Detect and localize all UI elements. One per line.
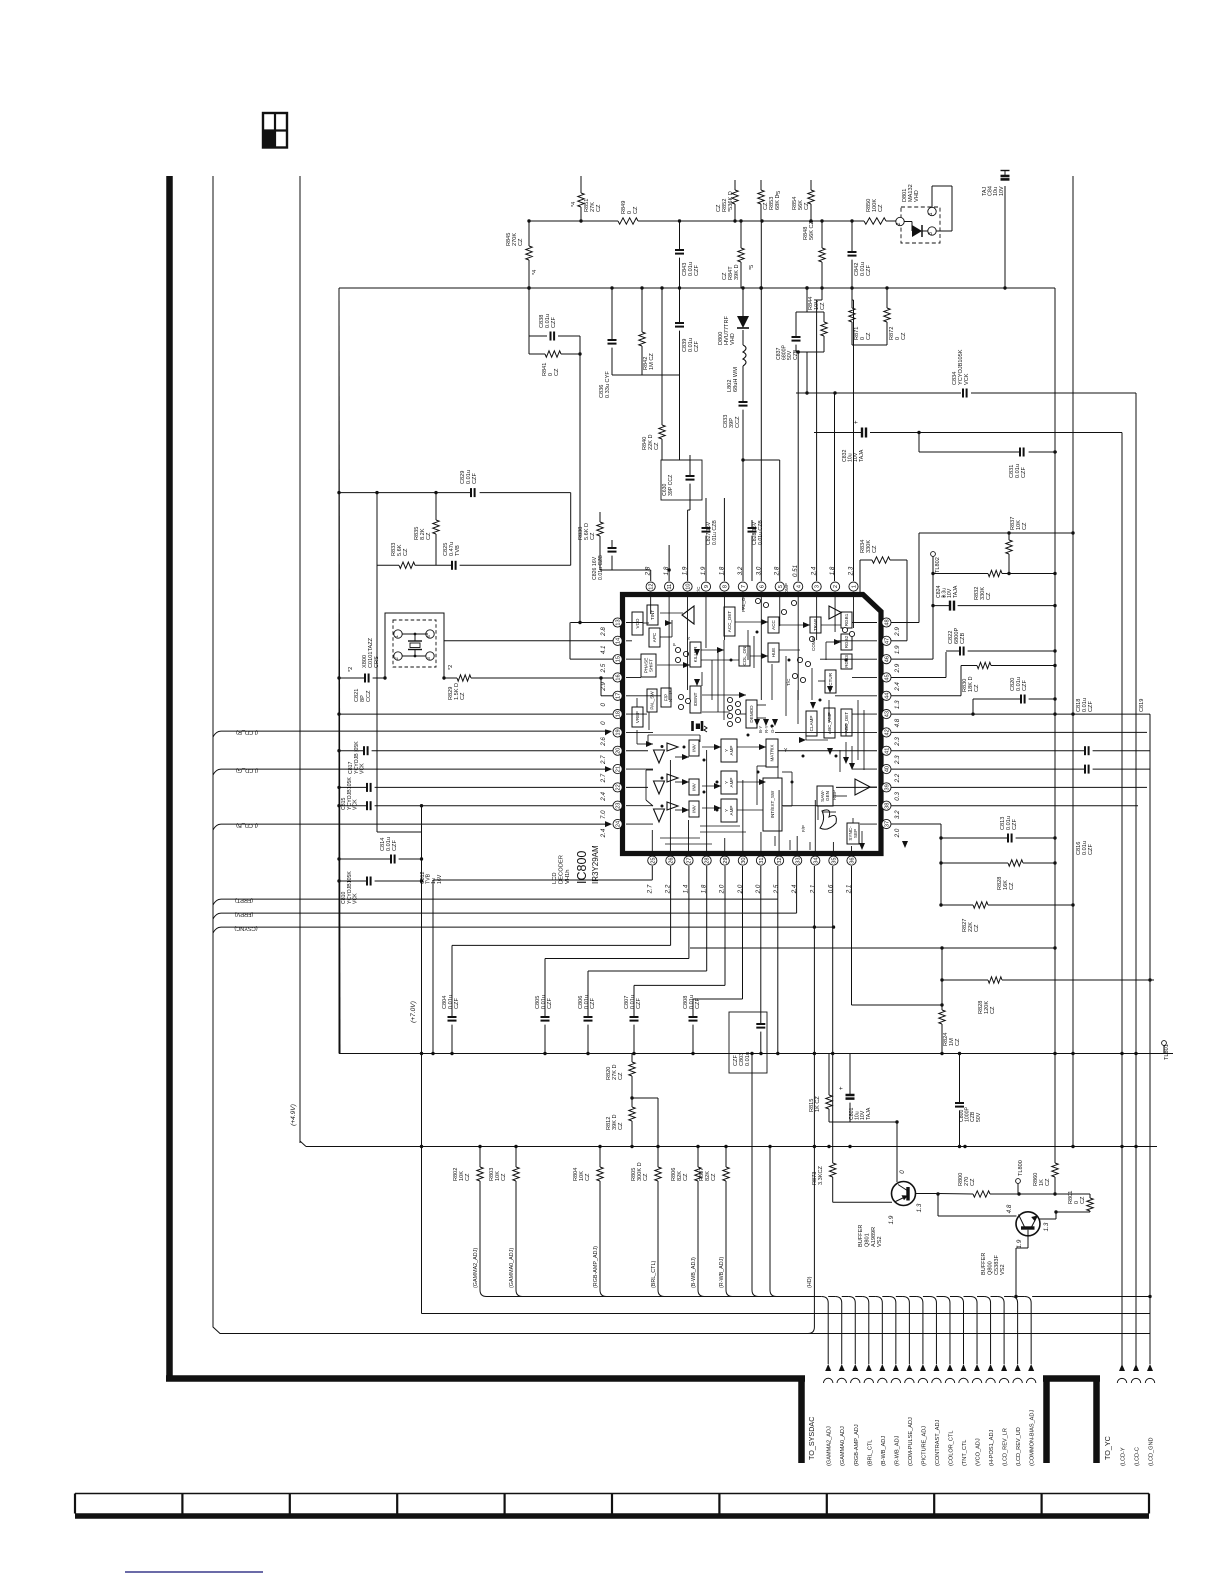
svg-text:TL802: TL802 bbox=[935, 557, 941, 573]
svg-text:(GAMMA2_ADJ: (GAMMA2_ADJ bbox=[827, 1426, 833, 1466]
net label (RGB-AMP_ADJ) bbox=[593, 1246, 599, 1288]
capacitor C830 box bbox=[661, 455, 702, 581]
svg-text:(HD): (HD) bbox=[807, 1276, 813, 1288]
resistor R829 bbox=[444, 665, 613, 700]
diode D801 bbox=[896, 184, 952, 243]
svg-text:16: 16 bbox=[616, 674, 622, 680]
wire pin41 stub bbox=[890, 750, 892, 752]
wire pin14 stub bbox=[444, 640, 613, 642]
svg-text:CZF: CZF bbox=[392, 840, 398, 851]
connector terminals TO_SYSDAC bbox=[824, 1303, 1036, 1383]
wire y948 link bbox=[690, 946, 1057, 949]
wire pin5 column bbox=[741, 458, 779, 581]
IC800 internal block KILLER bbox=[690, 642, 701, 667]
svg-text:(LCD_REV_UD: (LCD_REV_UD bbox=[1016, 1427, 1022, 1466]
svg-text:1.3: 1.3 bbox=[916, 1203, 923, 1212]
capacitor C819 bbox=[891, 699, 1150, 1364]
IC800 internal annotations bbox=[668, 583, 837, 832]
IC800 pin 15 bbox=[600, 655, 622, 674]
capacitor C814 bbox=[337, 837, 423, 864]
wire LCD_B input bbox=[213, 821, 612, 830]
svg-text:2.1: 2.1 bbox=[809, 885, 816, 895]
svg-text:COMP: COMP bbox=[811, 637, 816, 651]
svg-text:CZ: CZ bbox=[585, 1173, 591, 1181]
IC800 internal block COL ON bbox=[739, 646, 750, 666]
IC800 internal block APC bbox=[649, 628, 660, 647]
svg-text:CZ: CZ bbox=[974, 924, 980, 932]
svg-text:CZ: CZ bbox=[955, 1038, 961, 1046]
resistor R847 bbox=[722, 219, 755, 288]
capacitor C828 bbox=[748, 520, 765, 581]
resistor R805 bbox=[631, 1145, 665, 1297]
svg-text:2.8: 2.8 bbox=[600, 627, 607, 637]
svg-text:CZF: CZF bbox=[636, 998, 642, 1009]
wire right column C bbox=[1054, 288, 1056, 1054]
wire pin37 stub bbox=[0, 0, 1, 1]
svg-text:2.3: 2.3 bbox=[894, 737, 901, 747]
wire pin2 column bbox=[834, 393, 836, 581]
IC800 pin 18 bbox=[600, 710, 622, 725]
IC800 internal block INV 1 bbox=[689, 740, 699, 756]
svg-text:T/C: T/C bbox=[696, 586, 701, 594]
svg-text:(RGB-AMP_ADJ: (RGB-AMP_ADJ bbox=[854, 1424, 860, 1466]
svg-text:(BRL_CTL): (BRL_CTL) bbox=[651, 1261, 657, 1288]
resistor R802 bbox=[453, 1145, 487, 1297]
resistor R841 bbox=[527, 286, 581, 622]
svg-text:CZF: CZF bbox=[590, 998, 596, 1009]
resistor R832 bbox=[931, 570, 1056, 600]
svg-text:(VCO_ADJ: (VCO_ADJ bbox=[976, 1438, 982, 1466]
svg-text:CZ: CZ bbox=[554, 368, 560, 376]
page border thick left bar bbox=[166, 176, 173, 1382]
IC800 internal buffer pair 1 bbox=[654, 743, 679, 763]
wire pin4 column bbox=[797, 350, 800, 581]
svg-text:(LCD_GND: (LCD_GND bbox=[1149, 1437, 1155, 1466]
wire y492 bbox=[337, 491, 570, 565]
svg-text:2.6: 2.6 bbox=[600, 737, 607, 747]
net label (GAMMA0_ADJ) bbox=[509, 1248, 515, 1288]
svg-text:19: 19 bbox=[616, 729, 622, 735]
IC800 pin 41 bbox=[882, 746, 901, 765]
wire pin38 stub bbox=[891, 805, 1138, 807]
svg-text:INT/EXT_SW: INT/EXT_SW bbox=[770, 790, 775, 818]
IC800 internal block HUE bbox=[768, 643, 779, 662]
svg-text:33: 33 bbox=[795, 857, 801, 863]
svg-text:2.7: 2.7 bbox=[600, 755, 607, 765]
svg-text:10V: 10V bbox=[999, 186, 1005, 196]
svg-text:0: 0 bbox=[899, 1170, 906, 1174]
unmarked drops bbox=[750, 1052, 776, 1297]
svg-text:LCD: LCD bbox=[552, 872, 558, 884]
capacitor C813 bbox=[891, 816, 1057, 905]
IC800 pin 43 bbox=[882, 710, 901, 728]
IC800 internal block RGB2 bbox=[841, 634, 852, 650]
wire buffer rail bbox=[936, 1192, 1090, 1195]
svg-text:(LCD_G): (LCD_G) bbox=[236, 767, 259, 773]
svg-text:COL_ON: COL_ON bbox=[742, 647, 747, 666]
svg-text:CRS: CRS bbox=[374, 656, 380, 668]
svg-text:Q800: Q800 bbox=[987, 1261, 993, 1275]
resistor R800 bbox=[958, 1173, 990, 1198]
IC800 internal block ABC AMP bbox=[824, 708, 835, 738]
svg-text:(GAMMA0_ADJ): (GAMMA0_ADJ) bbox=[509, 1248, 515, 1288]
svg-text:CZF: CZF bbox=[1022, 680, 1028, 691]
registration mark bbox=[263, 113, 287, 148]
svg-text:VCO: VCO bbox=[635, 618, 640, 628]
IC800 pin 6 bbox=[755, 566, 766, 591]
svg-text:CZ: CZ bbox=[970, 1178, 976, 1186]
wire top rail bbox=[528, 219, 896, 222]
capacitor C816 on pin23 bbox=[337, 801, 613, 810]
svg-text:VCK: VCK bbox=[964, 373, 970, 385]
capacitor C825 bbox=[443, 542, 461, 570]
wire q800 collector link bbox=[981, 1166, 983, 1168]
svg-text:3.3KCZ: 3.3KCZ bbox=[818, 1165, 824, 1185]
IC800 pin 19 bbox=[600, 728, 622, 747]
svg-text:2.9: 2.9 bbox=[894, 663, 901, 673]
IC800 pin 8 bbox=[718, 566, 729, 591]
svg-text:*2: *2 bbox=[448, 665, 454, 670]
svg-text:CZ: CZ bbox=[872, 545, 878, 553]
svg-text:(FRPT): (FRPT) bbox=[235, 897, 253, 903]
IC800 pin 36 bbox=[846, 856, 857, 894]
svg-text:A1989R: A1989R bbox=[871, 1227, 877, 1247]
svg-text:CZF: CZF bbox=[694, 265, 700, 276]
svg-text:CCZ: CCZ bbox=[366, 690, 372, 702]
svg-text:TAJA: TAJA bbox=[859, 449, 865, 462]
wire pin1 column bbox=[852, 288, 854, 581]
test point TL802 bbox=[931, 552, 941, 606]
svg-text:(BRL_CTL: (BRL_CTL bbox=[867, 1440, 873, 1466]
svg-text:2.0: 2.0 bbox=[894, 828, 901, 838]
wire pin8 column bbox=[723, 498, 725, 581]
wire right column B bbox=[1121, 433, 1123, 1369]
svg-text:CZ: CZ bbox=[974, 684, 980, 692]
capacitor C821 bbox=[337, 667, 385, 702]
wire comp feed bbox=[814, 432, 1122, 434]
svg-text:(COLOR_CTL: (COLOR_CTL bbox=[948, 1431, 954, 1466]
wire pin48 stub bbox=[891, 531, 1075, 622]
svg-text:(+7.0V): (+7.0V) bbox=[410, 1001, 417, 1023]
wire FRPV bbox=[213, 866, 797, 919]
svg-text:CZ: CZ bbox=[618, 1072, 624, 1080]
wire pin43 long bbox=[891, 712, 1150, 715]
IC800 pin 40 bbox=[882, 764, 901, 783]
resistor R807 bbox=[699, 1145, 733, 1297]
wire rail left drop bbox=[338, 288, 340, 1054]
svg-text:1: 1 bbox=[394, 635, 399, 638]
svg-text:1.9: 1.9 bbox=[888, 1215, 895, 1224]
svg-text:BUFFER: BUFFER bbox=[858, 1225, 864, 1247]
wire cascade p26 bbox=[452, 866, 671, 945]
svg-text:42: 42 bbox=[885, 729, 891, 735]
resistor R848 bbox=[803, 220, 825, 288]
capacitor C829 bbox=[460, 470, 478, 497]
wire right column A bbox=[1135, 393, 1137, 1368]
svg-text:VHD: VHD bbox=[730, 333, 736, 345]
svg-text:*4: *4 bbox=[532, 270, 538, 275]
capacitor C827 bbox=[702, 498, 719, 581]
svg-text:47: 47 bbox=[885, 638, 891, 644]
IC800 pin 14 bbox=[600, 636, 622, 654]
svg-text:*536K D: *536K D bbox=[728, 191, 734, 212]
svg-text:INV: INV bbox=[692, 804, 697, 813]
svg-text:16V: 16V bbox=[437, 874, 443, 884]
svg-text:T/C: T/C bbox=[786, 678, 791, 686]
svg-text:(+4.9V): (+4.9V) bbox=[290, 1104, 297, 1126]
capacitor C800 bbox=[955, 1054, 982, 1147]
connector label TO_SYSDAC bbox=[807, 1417, 816, 1460]
wire pin17 stub bbox=[599, 676, 613, 696]
resistor R815 bbox=[809, 1054, 832, 1123]
svg-text:26: 26 bbox=[669, 857, 675, 863]
resistor R834 bbox=[860, 540, 907, 641]
svg-text:CZ: CZ bbox=[986, 592, 992, 600]
svg-text:(LCD_B): (LCD_B) bbox=[236, 822, 258, 828]
svg-text:AMP: AMP bbox=[729, 806, 734, 816]
IC800 internal block MATRIX bbox=[766, 739, 778, 767]
connector terminals TO_YC bbox=[1117, 1054, 1154, 1384]
svg-text:CZ: CZ bbox=[1080, 1196, 1086, 1204]
svg-text:VS2: VS2 bbox=[1000, 1264, 1006, 1275]
svg-text:VCK: VCK bbox=[353, 799, 359, 810]
svg-text:2.2: 2.2 bbox=[894, 773, 901, 783]
capacitor C84 bbox=[982, 171, 1010, 289]
IC800 internal inverter triangle bbox=[682, 606, 694, 624]
resistor R824 bbox=[939, 946, 961, 1053]
svg-text:(B-WB_ADJ): (B-WB_ADJ) bbox=[691, 1257, 697, 1288]
wire main rail bbox=[339, 286, 1055, 289]
svg-text:TVB: TVB bbox=[455, 545, 461, 556]
svg-text:PAL_SW: PAL_SW bbox=[650, 691, 655, 710]
svg-text:CZF: CZF bbox=[472, 473, 478, 484]
IC800 pin 13 bbox=[600, 618, 622, 637]
svg-text:18: 18 bbox=[616, 711, 622, 717]
svg-text:2.4: 2.4 bbox=[600, 792, 607, 802]
svg-text:RGB2: RGB2 bbox=[844, 635, 849, 648]
svg-text:12: 12 bbox=[649, 583, 655, 589]
svg-text:VS2: VS2 bbox=[877, 1236, 883, 1247]
IC800 internal block gamma amp 1 bbox=[721, 739, 737, 762]
IC800 internal block F-P bbox=[661, 688, 671, 707]
wire LCD_G input bbox=[213, 766, 612, 775]
svg-text:ABC_AMP: ABC_AMP bbox=[827, 712, 832, 734]
net label (R-WB_ADJ) bbox=[719, 1257, 725, 1288]
capacitor C832 bbox=[842, 420, 866, 462]
svg-text:9: 9 bbox=[704, 585, 710, 588]
svg-text:VHD: VHD bbox=[914, 190, 920, 202]
svg-text:0: 0 bbox=[600, 721, 607, 725]
svg-text:40: 40 bbox=[885, 766, 891, 772]
svg-text:(GAMMA2_ADJ): (GAMMA2_ADJ) bbox=[473, 1248, 479, 1288]
svg-text:1.3: 1.3 bbox=[1043, 1222, 1050, 1231]
svg-text:41: 41 bbox=[885, 748, 891, 754]
svg-text:CZ: CZ bbox=[878, 204, 884, 212]
svg-text:32: 32 bbox=[777, 857, 783, 863]
connector label TO_YC bbox=[1103, 1436, 1155, 1466]
capacitor C804 bbox=[442, 945, 460, 1053]
svg-text:TAJA: TAJA bbox=[953, 585, 959, 598]
IC800 internal block SYNC SEP bbox=[847, 823, 859, 844]
svg-text:0.6: 0.6 bbox=[827, 884, 834, 893]
wire p35 column bbox=[832, 866, 834, 1147]
crystal X800 bbox=[362, 613, 446, 680]
svg-text:IDENT: IDENT bbox=[693, 692, 698, 706]
IC800 pin 26 bbox=[664, 856, 675, 894]
svg-text:CZF: CZF bbox=[547, 998, 553, 1009]
svg-text:CZ: CZ bbox=[618, 1122, 624, 1130]
svg-text:2.3: 2.3 bbox=[894, 755, 901, 765]
svg-text:(LCD-Y: (LCD-Y bbox=[1121, 1447, 1127, 1466]
IC800 internal block PICTURE bbox=[825, 670, 836, 693]
resistor R828b bbox=[942, 977, 1154, 1014]
svg-text:CZ: CZ bbox=[403, 548, 409, 556]
wire long right column bbox=[1072, 176, 1074, 1147]
svg-text:VCK: VCK bbox=[353, 893, 359, 904]
svg-text:(R-WB_ADJ): (R-WB_ADJ) bbox=[719, 1257, 725, 1288]
IC800 internal buffer pair 2 bbox=[654, 774, 679, 794]
svg-text:28: 28 bbox=[705, 857, 711, 863]
wire pin39 long bbox=[891, 786, 1147, 788]
svg-text:2: 2 bbox=[896, 222, 902, 225]
svg-text:44: 44 bbox=[885, 693, 891, 699]
wire cascade p29 bbox=[634, 866, 725, 985]
svg-text:7: 7 bbox=[741, 585, 747, 588]
svg-text:13: 13 bbox=[616, 619, 622, 625]
IC800 pin 33 bbox=[791, 856, 802, 894]
svg-text:(COM-PULSE_ADJ: (COM-PULSE_ADJ bbox=[908, 1417, 914, 1466]
svg-text:IC800: IC800 bbox=[575, 851, 589, 884]
wire cascade p28 bbox=[588, 866, 707, 971]
IC800 internal block ABC DET bbox=[841, 709, 852, 736]
capacitor C805 bbox=[535, 959, 553, 1054]
svg-text:48: 48 bbox=[885, 619, 891, 625]
svg-text:11: 11 bbox=[667, 584, 673, 590]
wire CSYNC bbox=[213, 925, 835, 933]
svg-text:2.7: 2.7 bbox=[600, 773, 607, 783]
IC800 internal block RGB3 bbox=[841, 654, 852, 669]
wire left bus column bbox=[339, 288, 340, 1054]
svg-text:CCZ: CCZ bbox=[735, 416, 741, 428]
svg-text:31: 31 bbox=[759, 857, 765, 863]
IC800 pin 34 bbox=[809, 856, 820, 894]
svg-text:37: 37 bbox=[885, 821, 891, 827]
svg-text:VREF: VREF bbox=[635, 711, 640, 723]
inductor L802 bbox=[727, 345, 746, 402]
IC800 pin 10 bbox=[682, 566, 693, 591]
svg-text:2.4: 2.4 bbox=[791, 884, 798, 894]
svg-text:21: 21 bbox=[616, 766, 622, 772]
svg-text:ABC_DET: ABC_DET bbox=[844, 712, 849, 733]
svg-text:CZ: CZ bbox=[654, 442, 660, 450]
IC800 internal block DEMOD bbox=[746, 700, 757, 728]
svg-text:SEP: SEP bbox=[853, 829, 858, 838]
svg-text:CZ: CZ bbox=[804, 202, 810, 210]
wire cascade p25 bbox=[431, 866, 652, 1055]
IC800 pin 46 bbox=[882, 655, 901, 674]
svg-text:0.3: 0.3 bbox=[894, 792, 901, 801]
resistor R873 lower bbox=[832, 1177, 834, 1202]
svg-text:CZ: CZ bbox=[683, 1173, 689, 1181]
capacitor C831 bbox=[917, 431, 1057, 478]
svg-text:F/P: F/P bbox=[801, 825, 806, 832]
svg-text:1M CZ: 1M CZ bbox=[649, 353, 655, 370]
capacitor C815 bbox=[337, 777, 613, 810]
svg-text:24: 24 bbox=[616, 821, 622, 827]
IC800 pin 16 bbox=[600, 673, 622, 692]
svg-text:27: 27 bbox=[687, 857, 693, 863]
IC800 pin 28 bbox=[701, 856, 712, 893]
svg-text:4.8: 4.8 bbox=[894, 718, 901, 727]
svg-text:(LCD_REV_LR: (LCD_REV_LR bbox=[1003, 1428, 1009, 1466]
IC800 pin 30 bbox=[737, 856, 748, 894]
svg-text:VCK: VCK bbox=[360, 763, 366, 774]
diode D800 bbox=[718, 288, 749, 345]
svg-text:C819: C819 bbox=[1139, 699, 1145, 712]
transistor Q801 bbox=[833, 1122, 938, 1247]
capacitor C836 bbox=[599, 288, 617, 398]
capacitor C843 bbox=[675, 221, 700, 288]
svg-text:2: 2 bbox=[394, 657, 399, 660]
svg-text:R-Y: R-Y bbox=[764, 725, 769, 733]
IC800 pin 1 bbox=[848, 566, 859, 591]
svg-text:68uH WM: 68uH WM bbox=[733, 367, 739, 392]
svg-text:*5: *5 bbox=[776, 191, 782, 196]
IC800 pin 31 bbox=[755, 856, 766, 894]
wire FRPT bbox=[213, 866, 778, 905]
svg-text:CZ: CZ bbox=[990, 1006, 996, 1014]
svg-text:46: 46 bbox=[885, 656, 891, 662]
IC800 internal block INV 3 bbox=[689, 801, 699, 817]
svg-text:CZF: CZF bbox=[695, 998, 701, 1009]
IC800 internal block ACC DET bbox=[724, 607, 735, 636]
svg-text:P: P bbox=[672, 643, 677, 646]
resistor R871 bbox=[849, 288, 872, 345]
IC800 internal amplifier 2 bbox=[829, 606, 841, 619]
IC800 internal block VREF bbox=[632, 707, 643, 727]
resistor R804 bbox=[573, 1145, 607, 1297]
svg-text:HUE: HUE bbox=[771, 648, 776, 658]
svg-text:CZ: CZ bbox=[901, 332, 907, 340]
wire hsync feed bbox=[796, 391, 1136, 394]
svg-text:(CONTRAST_ADJ: (CONTRAST_ADJ bbox=[935, 1419, 941, 1466]
inner border line bbox=[213, 176, 1150, 1334]
resistor R828 bbox=[939, 860, 1056, 890]
capacitor C810 bbox=[337, 871, 423, 904]
svg-text:1.3: 1.3 bbox=[894, 700, 901, 709]
page border thick bottom bar bbox=[166, 1379, 805, 1464]
transistor Q800 bbox=[938, 1194, 1058, 1298]
wire LCD_R input bbox=[213, 729, 612, 737]
svg-text:7.0: 7.0 bbox=[600, 810, 607, 819]
svg-text:39P CCZ: 39P CCZ bbox=[668, 475, 674, 496]
svg-text:3: 3 bbox=[815, 585, 821, 588]
svg-text:MATRIX: MATRIX bbox=[770, 744, 775, 761]
svg-text:1.9: 1.9 bbox=[894, 645, 901, 654]
svg-text:39: 39 bbox=[885, 784, 891, 790]
svg-text:PAL_ON: PAL_ON bbox=[741, 594, 746, 612]
IC800 pin 42 bbox=[882, 728, 901, 747]
second border line bbox=[299, 176, 301, 1141]
svg-text:CZ: CZ bbox=[711, 1173, 717, 1181]
svg-text:(B-WB_ADJ: (B-WB_ADJ bbox=[881, 1436, 887, 1466]
IC800 internal buffer pair 3 bbox=[654, 802, 679, 822]
svg-text:23: 23 bbox=[616, 803, 622, 809]
svg-text:ACC_DET: ACC_DET bbox=[727, 611, 732, 633]
capacitor C822 bbox=[891, 628, 1057, 678]
IC800 internal amplifier 1 bbox=[855, 779, 870, 795]
svg-text:4: 4 bbox=[796, 585, 802, 588]
